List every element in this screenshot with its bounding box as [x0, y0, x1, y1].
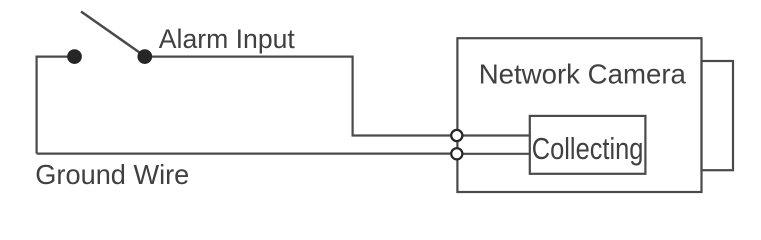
svg-text:Ground Wire: Ground Wire — [35, 159, 189, 190]
wire: left switch terminal to ground bus corner — [37, 57, 75, 154]
camera right side tab — [702, 61, 734, 170]
wire: terminal node 1 to collecting box — [457, 134, 530, 136]
switch terminal dot right — [137, 49, 152, 64]
switch S1 diagonal arm — [81, 12, 145, 57]
network camera enclosure — [457, 38, 701, 192]
wire: ground wire horizontal run to terminal node 2 — [37, 153, 457, 155]
svg-text:Network Camera: Network Camera — [479, 59, 687, 90]
terminal node circle 1 (alarm input port) — [451, 130, 462, 141]
svg-text:Collecting: Collecting — [532, 132, 644, 166]
terminal node circle 2 (ground port) — [451, 148, 462, 159]
svg-text:Alarm Input: Alarm Input — [159, 23, 295, 54]
collecting module box — [530, 116, 646, 174]
wire: alarm input run from right switch terminal to terminal node 1 — [145, 57, 457, 136]
switch terminal dot left — [67, 49, 82, 64]
wire: terminal node 2 to collecting box — [457, 153, 530, 155]
